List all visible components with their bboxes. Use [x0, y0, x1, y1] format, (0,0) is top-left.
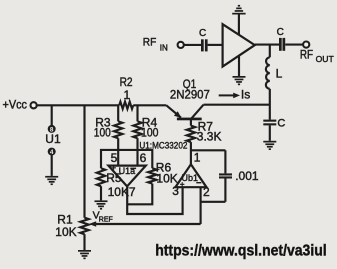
svg-text:2: 2 [203, 185, 210, 199]
svg-text:U1:MC33202: U1:MC33202 [139, 140, 187, 151]
svg-text:C: C [277, 27, 284, 38]
svg-text:Is: Is [241, 88, 250, 102]
svg-text:R5: R5 [106, 171, 122, 185]
svg-text:RF: RF [300, 48, 313, 62]
svg-text:2N2907: 2N2907 [170, 88, 210, 102]
svg-text:1: 1 [194, 150, 201, 164]
svg-text:7: 7 [129, 185, 136, 199]
svg-text:C: C [199, 28, 206, 39]
svg-text:100: 100 [141, 126, 159, 140]
svg-text:REF: REF [99, 217, 113, 224]
svg-text:RF: RF [143, 37, 157, 49]
svg-text:+Vcc: +Vcc [3, 98, 28, 112]
svg-text:4: 4 [50, 149, 54, 156]
svg-text:3: 3 [172, 184, 179, 198]
svg-text:.001: .001 [235, 169, 259, 183]
svg-text:L: L [276, 66, 283, 80]
svg-text:OUT: OUT [316, 54, 335, 64]
svg-text:https://www.qsl.net/va3iul: https://www.qsl.net/va3iul [155, 242, 327, 259]
svg-text:10K: 10K [108, 185, 129, 199]
svg-text:100: 100 [94, 126, 111, 140]
svg-text:U1: U1 [45, 132, 61, 146]
svg-text:3.3K: 3.3K [197, 130, 222, 144]
svg-text:6: 6 [140, 151, 147, 165]
svg-text:8: 8 [50, 126, 54, 133]
svg-text:C: C [277, 117, 285, 129]
svg-text:10K: 10K [55, 225, 76, 239]
svg-text:+: + [180, 180, 185, 189]
svg-text:1: 1 [123, 88, 130, 102]
svg-text:IN: IN [160, 43, 168, 52]
